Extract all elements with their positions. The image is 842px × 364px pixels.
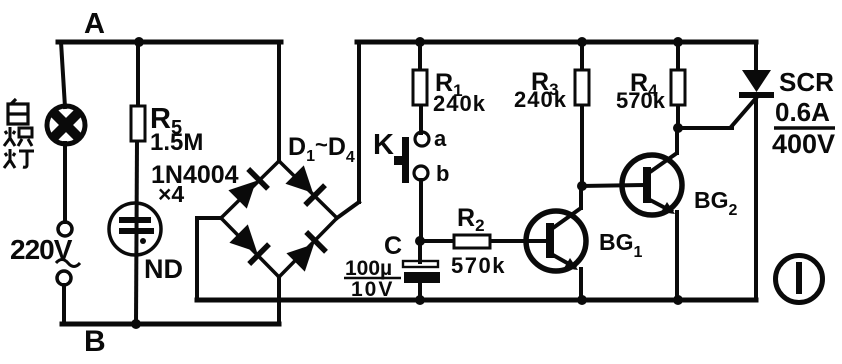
- svg-text:K: K: [373, 129, 394, 161]
- hanzi bai (white): [8, 99, 28, 124]
- terminal lower (220V): [57, 271, 71, 285]
- wire R3 top lead: [580, 42, 584, 70]
- wire BG1 collector vertical: [579, 186, 583, 208]
- wire DC top rail: [357, 40, 756, 45]
- diode bar D1: [248, 169, 268, 189]
- wire gate horizontal: [678, 126, 732, 130]
- svg-text:A: A: [84, 8, 105, 40]
- wire bridge top vertical: [277, 42, 281, 161]
- wire top AC rail A: [58, 40, 281, 45]
- wire R4 top lead: [676, 42, 680, 70]
- wire DC plus vertical: [357, 42, 361, 202]
- svg-text:C: C: [384, 232, 402, 260]
- node dot R4 top: [673, 37, 683, 47]
- resistor R5: [131, 106, 145, 141]
- wire left down to DC minus rail: [195, 218, 199, 300]
- SCR cathode bar: [739, 92, 774, 98]
- svg-text:ND: ND: [144, 254, 183, 284]
- node dot A rail: [134, 37, 144, 47]
- wire BG2 emitter vertical: [675, 212, 679, 300]
- switch K contact a: [415, 132, 429, 146]
- node dot BG1 emitter: [577, 295, 587, 305]
- wire SCR gate diagonal: [731, 97, 757, 127]
- wire bridge left stub: [197, 216, 221, 220]
- wire B rail: [62, 322, 279, 327]
- hanzi deng (lamp): [4, 149, 34, 168]
- svg-text:×4: ×4: [158, 181, 184, 207]
- svg-text:1.5M: 1.5M: [150, 129, 203, 156]
- wire node to BG2 base: [582, 185, 644, 186]
- wire DC minus bottom rail: [197, 298, 756, 303]
- wire BG1 emitter vertical: [579, 269, 583, 300]
- indicator symbol (circle with bar): [776, 256, 823, 303]
- svg-text:400V: 400V: [772, 129, 835, 159]
- svg-text:570k: 570k: [616, 88, 666, 113]
- wire R2 left lead: [420, 239, 454, 243]
- wire SCR cathode down: [754, 96, 758, 300]
- fraction bar 100u/10V: [344, 277, 401, 280]
- bridge rectifier D1-D4 frame: [221, 161, 337, 277]
- node dot R3/BG1/BG2: [577, 181, 587, 191]
- wire R3 bottom to node: [580, 105, 584, 186]
- wire R4 bottom lead: [676, 105, 680, 128]
- wire R5 through ND to B rail: [136, 141, 137, 324]
- diode D3 (bottom-left, points SE): [229, 224, 257, 252]
- node dot C bottom: [415, 295, 425, 305]
- neon lamp ND: [109, 203, 161, 255]
- resistor R4: [671, 70, 685, 105]
- wire R1 to switch contact a: [419, 105, 423, 133]
- transistor BG1: [526, 208, 586, 271]
- terminal upper (220V): [58, 222, 72, 236]
- svg-text:SCR: SCR: [779, 67, 834, 97]
- wire C top lead: [418, 241, 422, 262]
- svg-text:B: B: [84, 325, 106, 358]
- wire left vertical to lamp: [61, 42, 65, 107]
- wire SCR anode: [754, 42, 758, 71]
- capacitor C top plate: [403, 261, 438, 267]
- hanzi chi (blazing): [4, 127, 32, 146]
- svg-text:0.6A: 0.6A: [775, 97, 830, 127]
- SCR triangle: [742, 70, 771, 92]
- switch K actuator bar: [402, 137, 409, 183]
- node dot B rail: [131, 319, 141, 329]
- svg-text:570k: 570k: [451, 253, 506, 278]
- node dot R1 top: [415, 37, 425, 47]
- diode bar D3: [249, 244, 269, 264]
- resistor R1: [413, 70, 427, 105]
- wire R2 right lead to BG1 base: [490, 239, 547, 243]
- diode bar D4: [306, 232, 326, 252]
- node dot R4/gate/BG2: [673, 123, 683, 133]
- node dot K/R2/C: [415, 236, 425, 246]
- resistor R3: [575, 70, 589, 105]
- capacitor C bottom plate: [404, 272, 440, 283]
- diode D1 (top-left, points NE): [228, 181, 256, 209]
- diode bar D2: [305, 185, 325, 205]
- transistor BG2: [622, 153, 682, 215]
- wire C bottom lead: [418, 283, 422, 300]
- tilde under V: [56, 260, 80, 267]
- svg-text:100µ: 100µ: [345, 257, 392, 280]
- wire R5 top lead: [136, 42, 140, 106]
- svg-text:240k: 240k: [514, 87, 567, 112]
- svg-text:10V: 10V: [351, 278, 394, 301]
- fraction bar 0.6A/400V: [774, 126, 835, 130]
- svg-text:b: b: [436, 161, 449, 186]
- wire lamp to terminal: [63, 143, 67, 222]
- node dot R3 top: [577, 37, 587, 47]
- wire R1 top lead: [418, 42, 422, 70]
- svg-text:a: a: [434, 126, 447, 151]
- resistor R2: [454, 235, 490, 248]
- wire BG2 collector vertical: [675, 128, 679, 153]
- switch K actuator nub: [394, 156, 402, 165]
- wire terminal to B rail: [62, 285, 66, 324]
- wire switch b to node: [419, 180, 423, 241]
- lamp (incandescent): [47, 106, 85, 144]
- diode D4 (bottom-right, points NE): [286, 244, 314, 272]
- wire bridge right diagonal: [337, 202, 359, 218]
- wire bridge bottom to B rail: [277, 277, 281, 324]
- switch K contact b: [414, 166, 428, 180]
- node dot BG2 emitter: [673, 295, 683, 305]
- diode D2 (top-right, points SE): [285, 165, 313, 193]
- svg-text:240k: 240k: [433, 91, 486, 116]
